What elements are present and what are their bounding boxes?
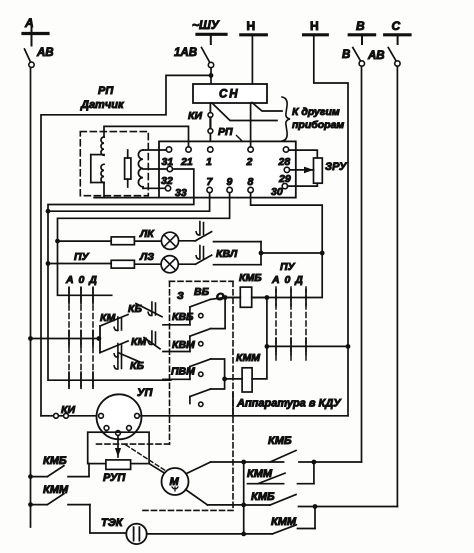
svg-text:А 0 Д: А 0 Д <box>271 274 304 286</box>
svg-text:Датчик: Датчик <box>80 99 125 111</box>
svg-text:КВМ: КВМ <box>172 339 195 351</box>
svg-text:В: В <box>356 19 365 33</box>
svg-text:ТЭК: ТЭК <box>101 517 124 529</box>
svg-text:КММ: КММ <box>236 352 260 364</box>
svg-text:Н: Н <box>247 19 256 33</box>
svg-text:К другим: К другим <box>292 106 340 118</box>
svg-text:КММ: КММ <box>247 468 273 480</box>
svg-text:РУП: РУП <box>103 472 126 484</box>
svg-text:КМБ: КМБ <box>268 435 292 447</box>
svg-text:АВ: АВ <box>36 47 54 59</box>
svg-text:приборам: приборам <box>292 119 344 131</box>
svg-text:1: 1 <box>206 156 212 168</box>
svg-text:А 0 Д: А 0 Д <box>65 274 98 286</box>
svg-text:РП: РП <box>98 85 114 97</box>
svg-text:ЗРУ: ЗРУ <box>325 161 348 173</box>
svg-text:КМБ: КМБ <box>251 491 275 503</box>
svg-text:КММ: КММ <box>43 484 69 496</box>
svg-text:СН: СН <box>219 89 240 101</box>
svg-text:ПУ: ПУ <box>74 251 90 263</box>
svg-text:КБ: КБ <box>128 303 142 315</box>
svg-text:УП: УП <box>137 387 153 399</box>
svg-text:2: 2 <box>246 156 253 168</box>
svg-text:КВЛ: КВЛ <box>216 248 238 260</box>
svg-text:КМ: КМ <box>100 312 115 324</box>
svg-text:АВ: АВ <box>367 50 385 62</box>
svg-text:ЛЗ: ЛЗ <box>139 251 154 263</box>
svg-text:С: С <box>392 19 401 33</box>
svg-text:КМ: КМ <box>131 336 146 348</box>
svg-text:Н: Н <box>310 19 319 33</box>
svg-text:ЛК: ЛК <box>139 228 155 240</box>
svg-text:28: 28 <box>278 156 291 168</box>
svg-text:КИ: КИ <box>188 110 202 122</box>
svg-text:КБ: КБ <box>130 360 144 372</box>
svg-text:В: В <box>342 49 350 61</box>
svg-text:З: З <box>177 290 184 302</box>
svg-text:ПУ: ПУ <box>280 261 296 273</box>
svg-text:РП: РП <box>218 126 233 138</box>
svg-text:30: 30 <box>271 186 283 198</box>
svg-text:~ШУ: ~ШУ <box>192 18 220 32</box>
svg-text:Аппаратура в КДУ: Аппаратура в КДУ <box>236 398 342 410</box>
svg-text:ПВМ: ПВМ <box>171 366 195 378</box>
svg-text:1АВ: 1АВ <box>174 47 197 59</box>
svg-text:КВБ: КВБ <box>172 311 194 323</box>
svg-text:21: 21 <box>180 156 193 168</box>
svg-text:8: 8 <box>248 176 254 188</box>
svg-text:КМБ: КМБ <box>239 272 262 284</box>
svg-text:9: 9 <box>227 176 233 188</box>
svg-text:33: 33 <box>175 187 187 199</box>
svg-text:ВБ: ВБ <box>194 286 210 298</box>
